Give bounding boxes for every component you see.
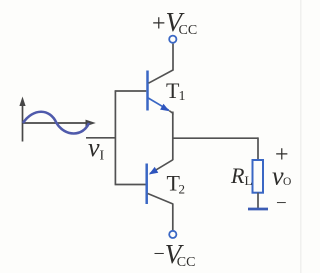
wire: input lead [86,137,115,139]
wire: T1 base lead [115,90,147,92]
wire: T1 emitter down to output node [172,112,174,139]
wire: T1 collector to +VCC [172,44,174,71]
terminal -VCC [169,231,176,238]
resistor RL [253,160,264,193]
ground [248,208,268,211]
transistor T1 [148,70,174,115]
svg-text:−: − [276,193,287,214]
wire: resistor to ground [257,193,259,208]
wire: output horizontal [172,137,258,139]
wire: T2 collector to -VCC [172,204,174,231]
wire: T2 base lead [115,184,146,186]
terminal +VCC [169,36,176,43]
transistor T2 [147,160,173,204]
input signal vertical axis [22,104,24,142]
input signal horizontal axis arrowhead [86,120,96,127]
page edge line [300,0,302,273]
input signal horizontal axis [23,122,88,124]
wire: base bus vertical [114,91,116,185]
wire: T2 emitter up to output node [172,138,174,160]
wire: output node to resistor [257,137,259,160]
input signal vertical axis arrowhead [19,97,25,107]
input sine wave [23,112,89,134]
